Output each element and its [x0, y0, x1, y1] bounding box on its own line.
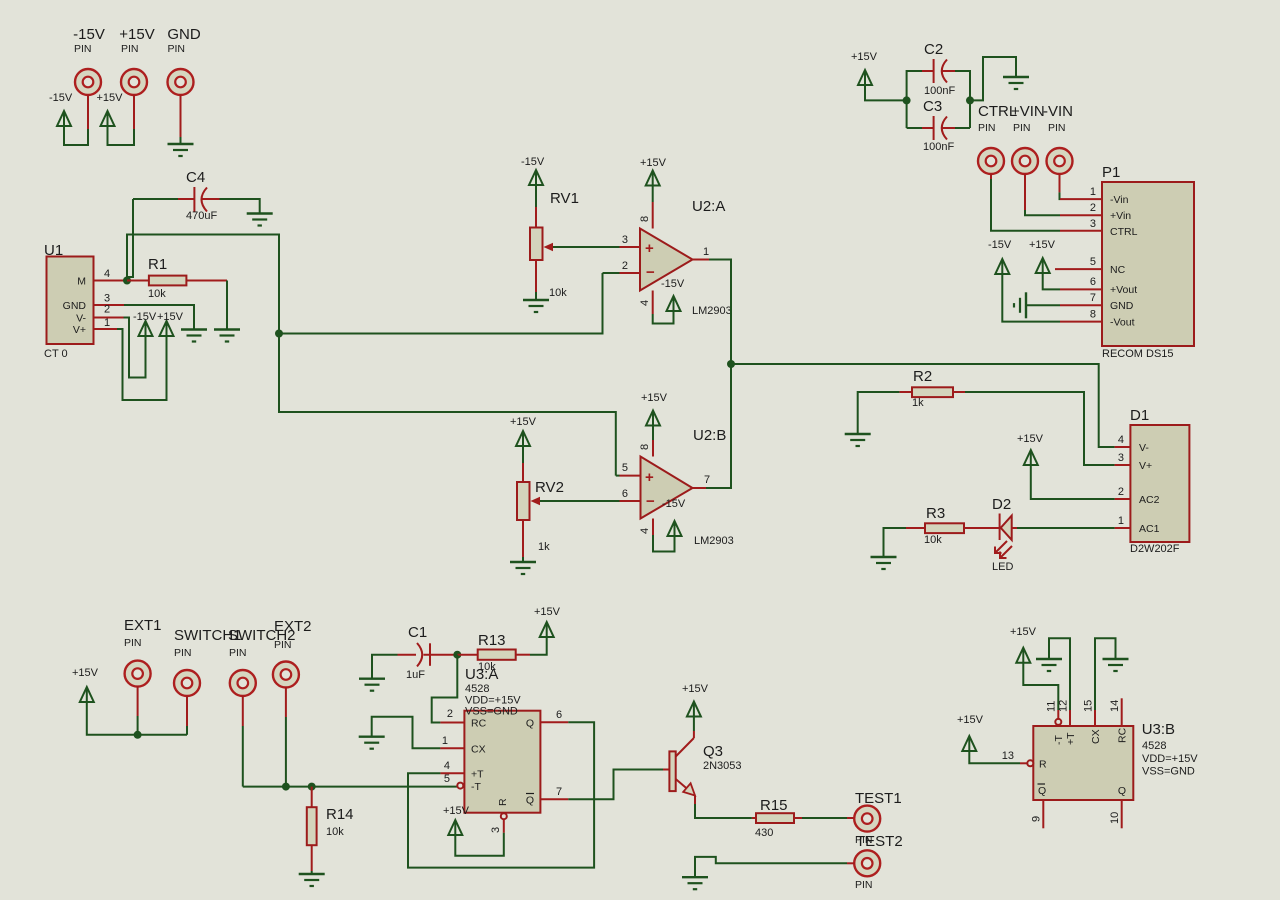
wire — [884, 528, 907, 556]
ground — [359, 737, 385, 749]
wire — [955, 71, 970, 128]
wire to ground — [970, 57, 1016, 100]
svg-text:6: 6 — [556, 709, 562, 721]
power arrow +15V — [1024, 450, 1038, 465]
svg-text:3: 3 — [622, 234, 628, 246]
svg-text:4: 4 — [104, 268, 110, 280]
svg-text:+15V: +15V — [641, 392, 668, 404]
pin 8 — [652, 202, 654, 229]
svg-text:+15V: +15V — [957, 714, 984, 726]
svg-text:1: 1 — [1118, 515, 1124, 527]
power arrow +15V — [160, 321, 174, 336]
svg-text:VSS=GND: VSS=GND — [1142, 766, 1195, 778]
pin 15 (CX) — [1094, 710, 1096, 726]
svg-text:-15V: -15V — [661, 278, 685, 290]
svg-text:TEST1: TEST1 — [855, 790, 902, 807]
wire emitter — [695, 804, 752, 818]
svg-text:15: 15 — [1083, 700, 1095, 712]
svg-text:14: 14 — [1109, 700, 1121, 712]
wiper arrow — [553, 246, 620, 248]
svg-text:+15V: +15V — [443, 805, 470, 817]
wire — [1017, 527, 1115, 529]
svg-text:PIN: PIN — [74, 43, 92, 55]
wire TEST2 to ground — [847, 862, 855, 864]
svg-text:C3: C3 — [923, 98, 942, 115]
pin 6 — [620, 500, 641, 502]
block U3:B — [1033, 726, 1133, 800]
wire — [226, 281, 228, 329]
svg-text:-VIN: -VIN — [1043, 103, 1073, 120]
pin 5 (-T) with bubble — [457, 783, 463, 789]
svg-text:R2: R2 — [913, 368, 932, 385]
wire — [180, 95, 182, 138]
svg-text:GND: GND — [167, 26, 201, 43]
potentiometer RV1 — [535, 207, 537, 228]
svg-text:1k: 1k — [912, 397, 924, 409]
svg-text:−: − — [646, 264, 655, 281]
svg-text:PIN: PIN — [855, 879, 873, 891]
ground — [181, 330, 207, 342]
power arrow +15V — [1016, 648, 1030, 663]
svg-text:V-: V- — [76, 313, 86, 325]
pin 8 — [1060, 321, 1102, 323]
svg-text:+15V: +15V — [682, 683, 709, 695]
svg-text:LED: LED — [992, 561, 1013, 573]
power arrow +15V — [646, 411, 660, 426]
wire — [652, 425, 654, 441]
pin 1 output — [693, 259, 710, 261]
svg-text:RC: RC — [1117, 727, 1129, 743]
svg-text:R3: R3 — [926, 505, 945, 522]
pin 13 (R) bubble — [1020, 762, 1027, 764]
svg-text:PIN: PIN — [121, 43, 139, 55]
wire — [616, 475, 620, 477]
svg-text:+Vin: +Vin — [1110, 210, 1131, 222]
svg-text:C2: C2 — [924, 41, 943, 58]
junction node — [966, 96, 974, 104]
svg-text:10k: 10k — [326, 826, 344, 838]
pin 4 (M) — [94, 280, 128, 282]
svg-text:LM2903: LM2903 — [694, 535, 734, 547]
pin 4 — [652, 519, 654, 536]
svg-text:-15V: -15V — [662, 498, 686, 510]
svg-text:PIN: PIN — [978, 122, 996, 134]
pin 12 (+T) — [1069, 710, 1071, 726]
wire — [242, 696, 244, 727]
svg-text:TEST2: TEST2 — [856, 833, 903, 850]
svg-text:7: 7 — [704, 474, 710, 486]
svg-text:R: R — [497, 798, 509, 806]
svg-text:+T: +T — [471, 769, 484, 781]
power arrow +15V — [646, 171, 660, 186]
pin 1 — [1115, 527, 1131, 529]
power arrow -15V — [139, 321, 153, 336]
svg-text:470uF: 470uF — [186, 210, 217, 222]
svg-text:-15V: -15V — [73, 26, 105, 43]
pin 4 — [652, 291, 654, 315]
svg-text:11: 11 — [1046, 701, 1058, 712]
pin EXT1 — [125, 661, 151, 687]
op-amp U2:B — [641, 457, 693, 519]
pin -VIN — [1047, 148, 1073, 174]
pin 7 output — [693, 487, 707, 489]
pin TEST2 — [854, 850, 880, 876]
ground — [845, 434, 871, 446]
svg-text:8: 8 — [639, 216, 651, 222]
pin 9 (Qbar) — [1042, 800, 1044, 828]
svg-text:PIN: PIN — [168, 43, 186, 55]
svg-text:10: 10 — [1109, 812, 1121, 824]
svg-text:V+: V+ — [73, 324, 86, 336]
junction node — [308, 783, 316, 791]
svg-text:+15V: +15V — [851, 51, 878, 63]
svg-text:RECOM DS15: RECOM DS15 — [1102, 348, 1174, 360]
svg-text:2: 2 — [1090, 202, 1096, 214]
svg-text:CX: CX — [1090, 729, 1102, 744]
wire — [653, 535, 675, 552]
ground — [1036, 659, 1062, 671]
pin 3 — [1115, 464, 1131, 466]
svg-text:1k: 1k — [538, 541, 550, 553]
svg-text:Q: Q — [1118, 785, 1126, 797]
pin 2 — [1060, 214, 1102, 216]
wire — [965, 392, 1115, 465]
wire — [1043, 272, 1060, 289]
svg-text:4: 4 — [639, 300, 651, 306]
wire C1 node to RC pin — [432, 655, 458, 723]
wire — [653, 310, 674, 324]
svg-text:AC2: AC2 — [1139, 494, 1160, 506]
svg-text:NC: NC — [1110, 264, 1126, 276]
svg-text:R14: R14 — [326, 806, 354, 823]
svg-text:U3:B: U3:B — [1142, 721, 1175, 738]
pin 7 — [1060, 304, 1102, 306]
junction node — [453, 651, 461, 659]
pin EXT2 — [273, 662, 299, 688]
svg-text:+15V: +15V — [97, 92, 124, 104]
svg-text:9: 9 — [1031, 816, 1043, 822]
wire to Q3 base — [568, 770, 663, 800]
wire — [87, 95, 89, 130]
pin 7 (Qbar) — [540, 798, 568, 800]
svg-text:PIN: PIN — [1048, 122, 1066, 134]
svg-text:Q3: Q3 — [703, 743, 723, 760]
svg-text:AC1: AC1 — [1139, 523, 1160, 535]
svg-text:CX: CX — [471, 744, 486, 756]
power terminal arrow (+15V net) — [101, 111, 115, 126]
wire — [693, 716, 695, 732]
ground — [214, 330, 240, 342]
svg-text:R1: R1 — [148, 256, 167, 273]
svg-text:RV2: RV2 — [535, 479, 564, 496]
pin +15V — [121, 69, 147, 95]
svg-text:+15V: +15V — [534, 606, 561, 618]
svg-text:CTRL: CTRL — [1110, 226, 1138, 238]
svg-text:-15V: -15V — [988, 239, 1012, 251]
ground — [359, 679, 385, 691]
svg-text:C1: C1 — [408, 624, 427, 641]
ground — [682, 877, 708, 889]
power arrow +15V — [448, 820, 462, 835]
junction node — [903, 96, 911, 104]
junction node — [123, 277, 131, 285]
pin -15V — [75, 69, 101, 95]
svg-text:+15V: +15V — [72, 667, 99, 679]
power arrow -15V — [529, 170, 543, 185]
pin 5 — [1055, 268, 1102, 270]
power arrow +15V — [962, 736, 976, 751]
pin GND — [168, 69, 194, 95]
junction node — [282, 783, 290, 791]
svg-text:3: 3 — [1118, 452, 1124, 464]
svg-text:GND: GND — [1110, 300, 1134, 312]
wire node bus — [127, 235, 279, 334]
svg-text:EXT1: EXT1 — [124, 617, 162, 634]
svg-text:5: 5 — [1090, 256, 1096, 268]
wire — [603, 272, 620, 274]
wire — [186, 696, 188, 727]
wire — [709, 260, 731, 365]
pin 5 — [620, 475, 641, 477]
svg-text:R15: R15 — [760, 797, 788, 814]
ground — [871, 557, 897, 569]
pin 1 (CX) — [440, 747, 464, 749]
svg-text:PIN: PIN — [1013, 122, 1031, 134]
pin 1 — [1060, 198, 1102, 200]
svg-text:8: 8 — [1090, 309, 1096, 321]
pin 3 (GND) — [94, 304, 125, 306]
svg-text:1: 1 — [703, 246, 709, 258]
wire — [117, 329, 167, 400]
svg-text:+15V: +15V — [157, 311, 184, 323]
wire — [522, 557, 524, 561]
svg-text:6: 6 — [622, 488, 628, 500]
wire — [969, 750, 1020, 763]
junction node — [727, 360, 735, 368]
power arrow +15V — [1036, 258, 1050, 273]
svg-text:430: 430 — [755, 827, 773, 839]
power arrow +15V — [516, 431, 530, 446]
pin 2 — [620, 272, 641, 274]
pin 4 — [1115, 446, 1131, 448]
pin SWITCH2 — [230, 670, 256, 696]
wire — [706, 364, 731, 488]
svg-text:+T: +T — [1065, 732, 1077, 745]
svg-text:4: 4 — [639, 528, 651, 534]
pin 2 — [1115, 498, 1131, 500]
wire — [1059, 174, 1061, 193]
svg-text:R: R — [1039, 759, 1047, 771]
pin 6 — [1060, 288, 1102, 290]
svg-text:2N3053: 2N3053 — [703, 760, 742, 772]
svg-text:10k: 10k — [549, 287, 567, 299]
svg-text:PIN: PIN — [229, 647, 247, 659]
svg-text:V+: V+ — [1139, 460, 1152, 472]
pin 4 (+T) — [440, 772, 464, 774]
svg-text:Q: Q — [1038, 785, 1046, 797]
svg-text:-T: -T — [1053, 735, 1065, 745]
svg-text:+15V: +15V — [640, 157, 667, 169]
svg-text:1: 1 — [442, 735, 448, 747]
svg-text:RV1: RV1 — [550, 190, 579, 207]
power arrow -15V — [668, 521, 682, 536]
svg-text:2: 2 — [447, 708, 453, 720]
ground — [1003, 77, 1029, 89]
wire CX ground — [372, 717, 441, 749]
wire — [1095, 638, 1116, 710]
svg-text:D2: D2 — [992, 496, 1011, 513]
ground (rotated) — [1014, 292, 1026, 318]
wire — [858, 392, 900, 433]
wire — [530, 636, 547, 655]
wiper arrow — [540, 500, 620, 502]
svg-text:+: + — [645, 240, 654, 257]
wire — [990, 174, 992, 180]
svg-text:10k: 10k — [148, 288, 166, 300]
power arrow -15V — [667, 296, 681, 311]
svg-text:2: 2 — [622, 260, 628, 272]
svg-text:M: M — [77, 276, 86, 288]
power arrow +15V — [858, 70, 872, 85]
wire — [87, 701, 187, 735]
svg-text:PIN: PIN — [274, 639, 292, 651]
wire — [955, 127, 970, 129]
svg-text:CT 0: CT 0 — [44, 348, 68, 360]
pin 11 (-T) bubble — [1057, 710, 1059, 719]
svg-text:6: 6 — [1090, 276, 1096, 288]
power arrow +15V — [540, 622, 554, 637]
svg-text:P1: P1 — [1102, 164, 1120, 181]
ground — [168, 144, 194, 156]
wire — [124, 305, 194, 329]
svg-text:-15V: -15V — [133, 311, 157, 323]
wire — [137, 686, 139, 716]
svg-text:GND: GND — [63, 300, 87, 312]
ground — [523, 300, 549, 312]
svg-text:13: 13 — [1002, 750, 1014, 762]
wire — [1024, 174, 1026, 211]
wire — [1026, 304, 1060, 306]
power arrow +15V — [687, 702, 701, 717]
wire — [802, 817, 847, 819]
power +? terminal arrow (-15V net) — [57, 111, 71, 126]
pin TEST1 — [854, 806, 880, 832]
svg-text:1: 1 — [1090, 186, 1096, 198]
svg-text:R13: R13 — [478, 632, 506, 649]
svg-text:+Vout: +Vout — [1110, 284, 1137, 296]
svg-text:PIN: PIN — [124, 637, 142, 649]
svg-text:+VIN: +VIN — [1011, 103, 1045, 120]
svg-text:+: + — [645, 469, 654, 486]
pin CTRL — [978, 148, 1004, 174]
svg-text:D2W202F: D2W202F — [1130, 543, 1180, 555]
wire — [124, 318, 146, 378]
wire to U2:B pin5 — [279, 334, 616, 476]
svg-text:U2:A: U2:A — [692, 198, 725, 215]
wire — [652, 185, 654, 203]
wire to U2:A pin2 — [279, 273, 603, 334]
svg-text:+15V: +15V — [1029, 239, 1056, 251]
wire — [133, 95, 135, 130]
junction node — [275, 330, 283, 338]
pin 1 (V+) — [94, 328, 118, 330]
svg-text:Q: Q — [526, 718, 534, 730]
wire Q feedback — [408, 722, 594, 867]
pin 6 (Q) — [540, 721, 568, 723]
svg-text:-T: -T — [471, 781, 481, 793]
pin 3 — [1060, 230, 1102, 232]
svg-text:-Vin: -Vin — [1110, 194, 1129, 206]
svg-text:2: 2 — [104, 304, 110, 316]
svg-text:−: − — [646, 493, 655, 510]
svg-text:3: 3 — [1090, 218, 1096, 230]
ground — [510, 562, 536, 574]
svg-text:4528: 4528 — [1142, 740, 1166, 752]
svg-text:C4: C4 — [186, 169, 205, 186]
svg-text:2: 2 — [1118, 486, 1124, 498]
power arrow +15V — [80, 687, 94, 702]
wire — [731, 364, 1115, 447]
wire — [535, 184, 537, 207]
wire — [1031, 464, 1115, 499]
wire R pin to +15V — [455, 833, 504, 856]
ground — [247, 214, 273, 226]
potentiometer RV2 — [522, 463, 524, 482]
wire — [1049, 638, 1070, 710]
svg-text:+15V: +15V — [1017, 433, 1044, 445]
svg-text:-15V: -15V — [49, 92, 73, 104]
svg-text:8: 8 — [639, 444, 651, 450]
svg-text:7: 7 — [1090, 292, 1096, 304]
svg-text:VSS=GND: VSS=GND — [465, 706, 518, 718]
wire — [285, 687, 287, 717]
wire C4 left down to node — [127, 199, 133, 281]
svg-text:100nF: 100nF — [923, 141, 954, 153]
svg-text:VDD=+15V: VDD=+15V — [1142, 753, 1198, 765]
svg-text:100nF: 100nF — [924, 85, 955, 97]
svg-text:+15V: +15V — [119, 26, 154, 43]
svg-text:PIN: PIN — [174, 647, 192, 659]
svg-text:7: 7 — [556, 786, 562, 798]
svg-text:12: 12 — [1058, 700, 1070, 712]
op-amp U2:A — [640, 229, 693, 291]
svg-text:-15V: -15V — [521, 156, 545, 168]
pin 10 (Q) — [1121, 800, 1123, 828]
wire — [1002, 273, 1060, 322]
svg-text:4528: 4528 — [465, 683, 489, 695]
svg-text:1: 1 — [104, 317, 110, 329]
pin 3 (R) bubble — [501, 813, 507, 819]
power arrow -15V — [995, 259, 1009, 274]
svg-text:RC: RC — [471, 718, 487, 730]
transistor Q3 — [663, 769, 669, 771]
svg-text:LM2903: LM2903 — [692, 305, 732, 317]
block U3:A — [464, 711, 540, 813]
pin 2 (V-) — [94, 317, 124, 319]
svg-text:+15V: +15V — [510, 416, 537, 428]
resistor R14 — [311, 787, 313, 808]
junction node — [134, 731, 142, 739]
pin SWITCH1 — [174, 670, 200, 696]
svg-text:5: 5 — [622, 462, 628, 474]
svg-text:1uF: 1uF — [406, 669, 425, 681]
svg-text:EXT2: EXT2 — [274, 618, 312, 635]
svg-text:Q: Q — [526, 795, 534, 807]
pin 8 — [652, 440, 654, 457]
svg-text:+15V: +15V — [1010, 626, 1037, 638]
ground — [1103, 659, 1129, 671]
pin 3 — [620, 246, 641, 248]
